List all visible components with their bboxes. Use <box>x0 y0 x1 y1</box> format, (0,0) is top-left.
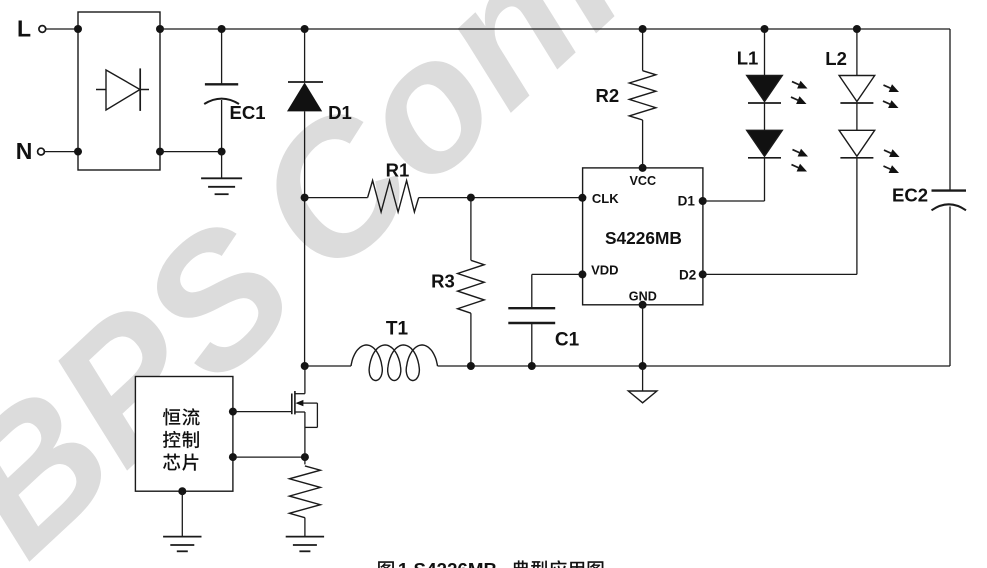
ground EC1 <box>201 152 242 195</box>
pin GND <box>639 301 647 309</box>
wire GND pin to return rail <box>639 305 647 370</box>
svg-text:R1: R1 <box>386 160 410 181</box>
svg-text:VDD: VDD <box>591 263 618 278</box>
wire D2 pin to L2 <box>703 273 857 275</box>
svg-text:1 S4226MB: 1 S4226MB <box>398 559 497 568</box>
node bridge corners <box>74 25 164 156</box>
LED L2 light arrows <box>881 81 901 177</box>
pin VDD <box>578 270 586 278</box>
wire N to EC1 <box>160 25 226 156</box>
svg-text:VCC: VCC <box>630 174 657 188</box>
bridge rectifier <box>78 12 160 170</box>
LED L1 light arrows <box>789 78 809 176</box>
LED L2 <box>825 25 874 274</box>
resistor sense (below Q1) <box>289 466 320 518</box>
svg-text:T1: T1 <box>386 319 409 340</box>
svg-text:S4226MB: S4226MB <box>605 228 682 248</box>
capacitor EC2 <box>892 185 966 211</box>
svg-text:C1: C1 <box>555 329 580 350</box>
wire right rail lower <box>949 207 951 367</box>
wire main vertical D1 to T1 <box>301 194 309 370</box>
svg-text:R2: R2 <box>595 85 619 106</box>
capacitor EC1 <box>204 29 265 152</box>
capacitor C1 <box>508 274 582 370</box>
pin D1 <box>699 197 707 205</box>
wire right rail upper <box>949 29 951 191</box>
wire top rail <box>160 28 950 30</box>
resistor R2 <box>595 25 655 168</box>
ground control box <box>163 491 201 551</box>
terminal N <box>16 138 78 164</box>
wire bottom return rail <box>305 365 950 367</box>
svg-text:CLK: CLK <box>592 191 619 206</box>
ground signal triangle <box>628 366 657 403</box>
wire D1 pin to L1 <box>703 200 765 202</box>
LED L1 <box>737 25 783 201</box>
resistor R3 <box>431 198 484 370</box>
svg-text:EC1: EC1 <box>230 102 266 123</box>
caption: figure title <box>378 559 603 568</box>
node control box pins <box>178 408 237 496</box>
svg-text:EC2: EC2 <box>892 185 928 206</box>
svg-text:D1: D1 <box>678 194 696 209</box>
svg-text:L2: L2 <box>825 48 847 69</box>
svg-text:L: L <box>17 16 31 42</box>
ground sense resistor <box>286 518 324 552</box>
resistor R1 <box>305 160 471 212</box>
control chip box (constant current control chip) <box>135 377 233 492</box>
pin D2 <box>699 270 707 278</box>
inductor T1 <box>351 319 438 381</box>
transistor Q1 MOSFET <box>292 366 318 464</box>
svg-text:D1: D1 <box>328 102 352 123</box>
wire source sense <box>233 453 309 461</box>
IC U1 S4226MB <box>583 168 703 305</box>
wire R1 to CLK <box>467 194 583 202</box>
pin CLK <box>578 194 586 202</box>
svg-text:R3: R3 <box>431 271 455 292</box>
svg-text:L1: L1 <box>737 47 759 68</box>
svg-text:N: N <box>16 138 33 164</box>
diode D1 <box>287 25 352 198</box>
wire gate <box>233 411 292 413</box>
pin VCC <box>639 164 647 172</box>
svg-text:D2: D2 <box>679 267 696 282</box>
terminal L <box>17 16 78 42</box>
